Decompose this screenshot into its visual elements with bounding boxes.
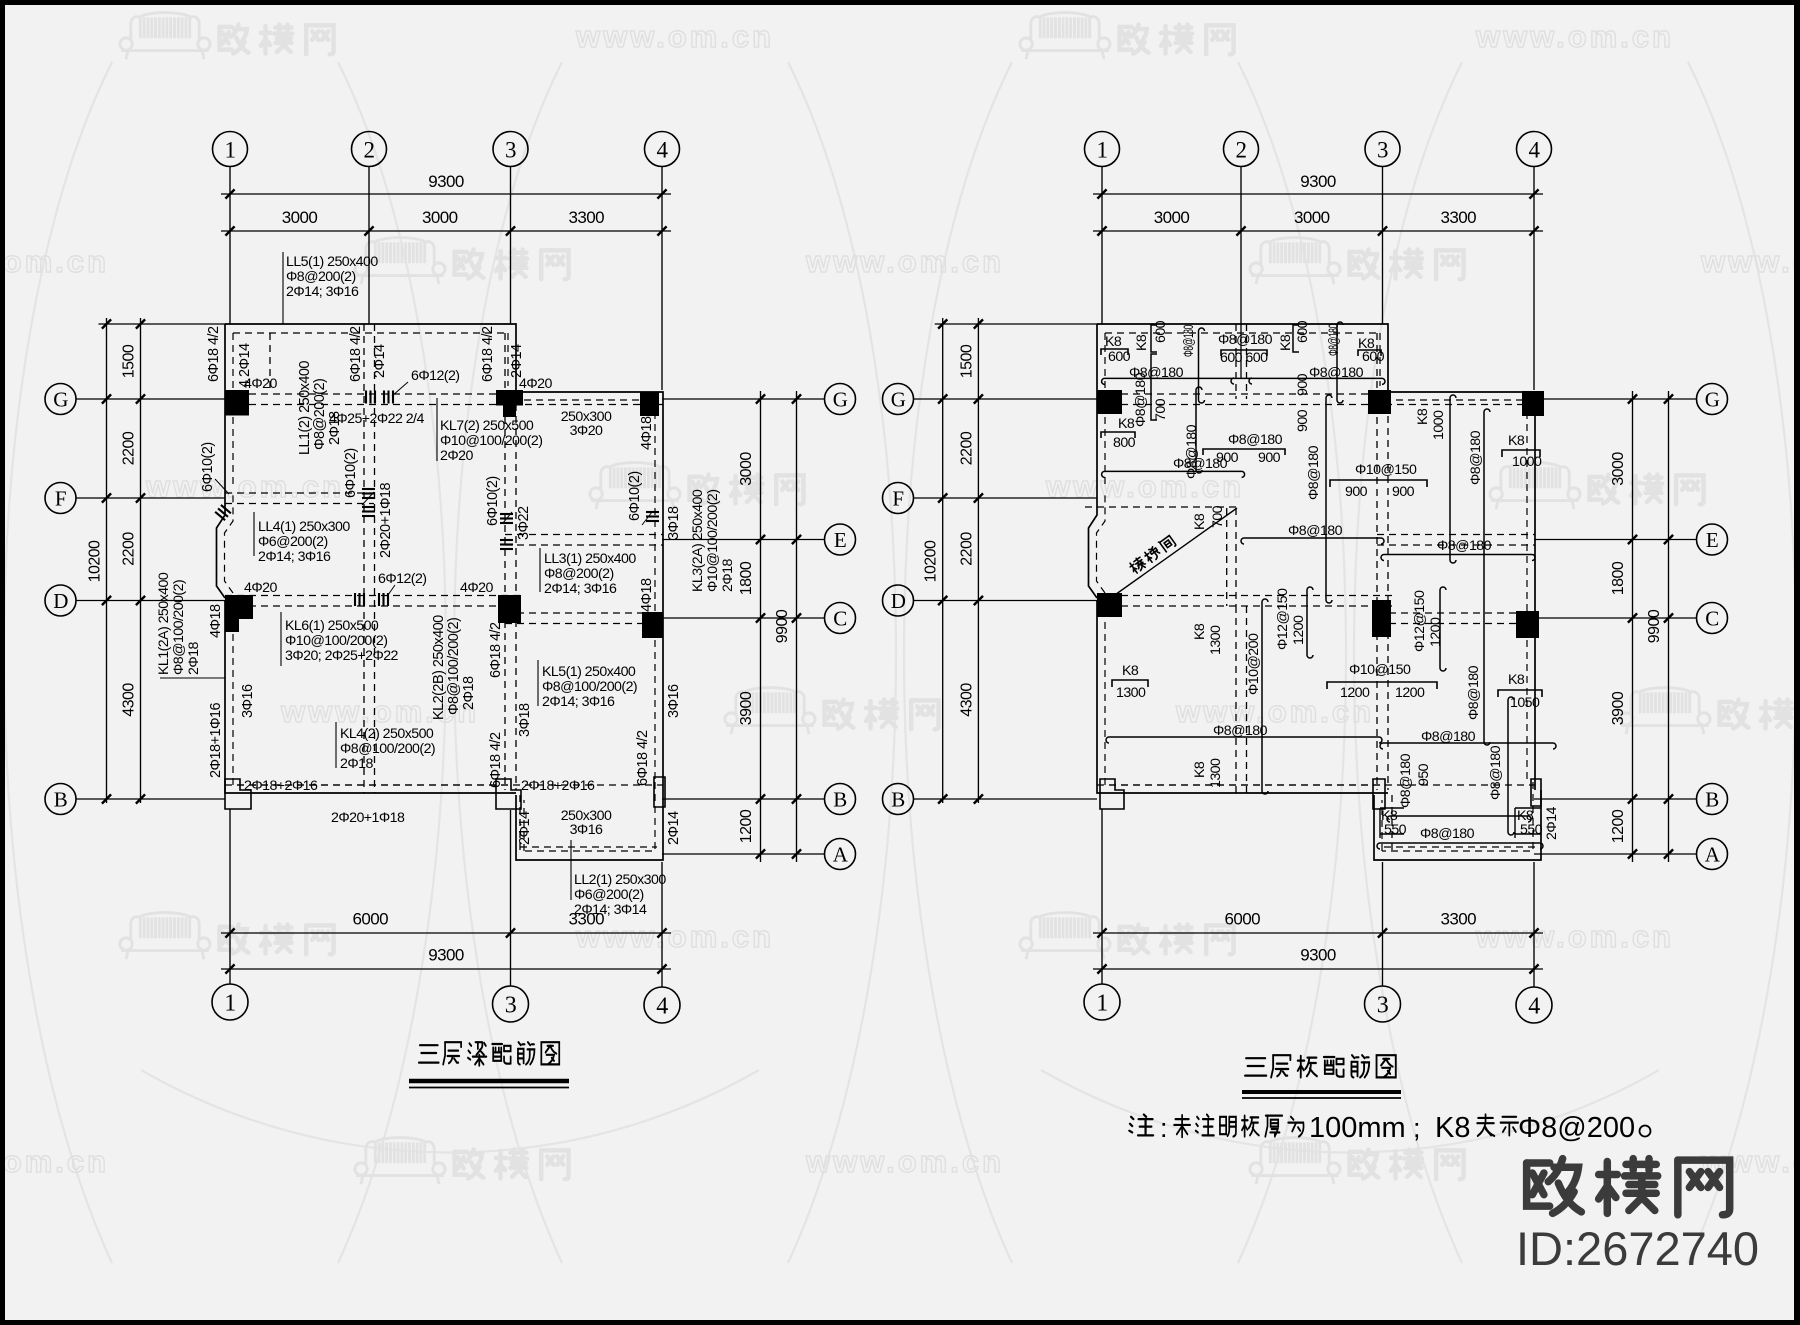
svg-text:3300: 3300 (1440, 208, 1476, 227)
svg-text:Φ8@180: Φ8@180 (1468, 430, 1484, 485)
svg-text:Φ8@100/200(2): Φ8@100/200(2) (171, 580, 187, 675)
svg-text:LL3(1) 250x400: LL3(1) 250x400 (544, 551, 636, 567)
svg-text:3: 3 (1377, 993, 1389, 1019)
svg-text:2Φ14; 3Φ14: 2Φ14; 3Φ14 (574, 902, 647, 918)
svg-text:Φ8@180: Φ8@180 (1437, 538, 1492, 554)
svg-text:2Φ14: 2Φ14 (509, 344, 525, 378)
svg-text:Φ10@200: Φ10@200 (1246, 633, 1262, 695)
svg-text:9300: 9300 (428, 946, 464, 965)
svg-text:Φ8@200(2): Φ8@200(2) (312, 379, 328, 450)
svg-text:2Φ18: 2Φ18 (461, 676, 477, 710)
right plan beam dashes G row (1097, 393, 1387, 395)
svg-text:6Φ18 4/2: 6Φ18 4/2 (488, 732, 504, 788)
svg-text:6Φ10(2): 6Φ10(2) (200, 442, 216, 492)
left plan beam dashes C row (grid3-4) (505, 612, 663, 614)
right plan vertical dashed extension (1391, 795, 1393, 851)
right horizontal rebar E-C (1381, 555, 1535, 561)
svg-text:2200: 2200 (958, 431, 975, 465)
column C4 right (1516, 611, 1539, 638)
svg-text:100mm: 100mm (1309, 1112, 1406, 1144)
svg-text:;: ; (1413, 1113, 1420, 1143)
svg-text:2Φ14; 3Φ16: 2Φ14; 3Φ16 (542, 694, 615, 710)
svg-text:2: 2 (1236, 137, 1247, 162)
svg-text:700: 700 (1210, 505, 1226, 528)
svg-text:KL2(2B) 250x400: KL2(2B) 250x400 (431, 615, 447, 720)
svg-text:Φ8@180: Φ8@180 (1228, 432, 1283, 448)
svg-text:4Φ20: 4Φ20 (460, 580, 493, 596)
svg-text:C: C (833, 607, 846, 631)
staircase diagonal (1112, 508, 1237, 597)
left dimension chain lines (106, 318, 108, 803)
bottom dimension lines 6000/3300 and 9300 (221, 932, 671, 934)
svg-text:4300: 4300 (121, 683, 138, 717)
KL1 annotation (rotated, outside left) (160, 677, 225, 679)
right plan F row dashed to stair (1085, 506, 1237, 508)
top strip long rebar (1102, 378, 1385, 384)
svg-text:www.om.cn: www.om.cn (0, 244, 109, 279)
svg-text:Φ8@200(2): Φ8@200(2) (286, 269, 356, 285)
left plan vertical dashed grid4 extension (519, 795, 521, 851)
svg-text:KL5(1) 250x400: KL5(1) 250x400 (542, 664, 636, 680)
svg-text:6Φ10(2): 6Φ10(2) (627, 471, 643, 521)
svg-text:2Φ14: 2Φ14 (517, 811, 533, 845)
leader 6phi10 chamfer (215, 479, 229, 494)
left plan inner dashed outline (225, 333, 656, 851)
svg-text:900: 900 (1295, 409, 1311, 432)
svg-text:3000: 3000 (738, 452, 755, 486)
svg-text:2Φ18+1Φ16: 2Φ18+1Φ16 (208, 702, 224, 778)
svg-text:700: 700 (1153, 398, 1169, 421)
bottom-right logo ou mo wang (1527, 1159, 1582, 1214)
svg-text:600: 600 (1362, 349, 1385, 365)
svg-text:3Φ18: 3Φ18 (666, 506, 682, 540)
mid vertical long rebar g2-3 (1326, 395, 1332, 603)
svg-text:600 600: 600 600 (1220, 350, 1268, 366)
right plan beam dashes C row (1377, 612, 1535, 614)
top strip second rebar (1102, 471, 1245, 477)
right plan beam dashes B row (1097, 784, 1535, 786)
bottom stub lines and circles 1 3 4 (229, 809, 231, 984)
left plan beam dashes B row (225, 784, 663, 786)
svg-text:www.om.cn: www.om.cn (1700, 244, 1800, 279)
svg-text:Φ8@180: Φ8@180 (1488, 745, 1504, 800)
svg-text:1: 1 (1097, 137, 1108, 162)
svg-text:Φ8@180: Φ8@180 (1466, 665, 1482, 720)
svg-text:Φ8@180: Φ8@180 (1213, 723, 1268, 739)
svg-text:KL6(1) 250x500: KL6(1) 250x500 (285, 618, 379, 634)
svg-text:2: 2 (364, 137, 375, 162)
svg-text:K8: K8 (1192, 623, 1208, 640)
left dimension chain lines (942, 318, 944, 803)
svg-text:E: E (834, 528, 846, 552)
svg-text:A: A (1705, 843, 1721, 867)
svg-text:2200: 2200 (121, 431, 138, 465)
svg-text:F: F (892, 487, 903, 511)
svg-text:LL2(1) 250x300: LL2(1) 250x300 (574, 872, 666, 888)
svg-text:600: 600 (1108, 349, 1131, 365)
svg-text:4Φ18: 4Φ18 (639, 416, 655, 450)
right grid circles G E C B A (plan dx=872) (1697, 384, 1728, 415)
column D3 right (tall) (1372, 600, 1391, 637)
svg-text:B: B (833, 788, 846, 812)
svg-text:K8: K8 (1134, 334, 1150, 351)
column D3 (498, 595, 521, 623)
svg-text:Φ8@180: Φ8@180 (1398, 753, 1414, 808)
leader 6phi10 E3 (503, 512, 512, 523)
svg-text:2Φ20+1Φ18: 2Φ20+1Φ18 (331, 810, 405, 826)
svg-text:1300: 1300 (1208, 758, 1224, 788)
svg-text:1800: 1800 (738, 561, 755, 595)
hollow column B1 right (1100, 779, 1124, 809)
LL2 annotation (570, 840, 572, 900)
svg-text:Φ10@150: Φ10@150 (1355, 462, 1417, 478)
svg-text:10200: 10200 (923, 540, 940, 582)
left plan vertical beam grid2 (363, 324, 365, 793)
svg-text:1200: 1200 (1291, 615, 1307, 645)
svg-text:www.om.cn: www.om.cn (1475, 19, 1674, 54)
column G3 (L-shaped) (496, 390, 523, 406)
watermark tiles (120, 13, 210, 60)
left plan vertical beam grid3 (504, 333, 506, 790)
column G4 (640, 392, 659, 416)
KL5 annotation (537, 660, 539, 706)
svg-text:550: 550 (1520, 822, 1543, 838)
svg-text:3Φ16: 3Φ16 (240, 684, 256, 718)
leader 6phi10 F2 (362, 492, 374, 505)
svg-text:G: G (891, 388, 906, 412)
svg-text:6Φ18 4/2: 6Φ18 4/2 (206, 326, 222, 382)
svg-text:9900: 9900 (1646, 609, 1663, 643)
svg-text:2Φ14; 3Φ16: 2Φ14; 3Φ16 (286, 284, 359, 300)
svg-text:3: 3 (505, 993, 517, 1019)
hollow column B3 (496, 779, 521, 809)
svg-text:2Φ14; 3Φ16: 2Φ14; 3Φ16 (258, 549, 331, 565)
svg-text:Φ8@180: Φ8@180 (1181, 325, 1197, 357)
svg-text:9900: 9900 (774, 609, 791, 643)
svg-text:1200: 1200 (1340, 685, 1370, 701)
svg-text:6000: 6000 (1224, 910, 1260, 929)
svg-text:www.om.cn: www.om.cn (575, 919, 774, 954)
svg-text:4: 4 (1529, 137, 1541, 162)
svg-text:F: F (55, 487, 66, 511)
svg-text:1300: 1300 (1116, 685, 1146, 701)
svg-text:3900: 3900 (1610, 691, 1627, 725)
svg-text:www.om.cn: www.om.cn (575, 19, 774, 54)
svg-text:1200: 1200 (738, 809, 755, 843)
svg-text:2200: 2200 (121, 532, 138, 566)
hollow column B1 (225, 779, 251, 809)
stirrup ticks chamfer (215, 505, 231, 520)
svg-text:3000: 3000 (422, 208, 458, 227)
stirrup ticks G/g2 (365, 391, 367, 404)
svg-text:K8: K8 (1508, 433, 1525, 449)
svg-text:950: 950 (1416, 763, 1432, 786)
svg-text:K8: K8 (1415, 408, 1431, 425)
right plan extension bottom dashed (1384, 846, 1535, 848)
svg-text:6Φ18 4/2: 6Φ18 4/2 (488, 622, 504, 678)
svg-text:C: C (1705, 607, 1718, 631)
svg-text:3Φ18: 3Φ18 (517, 703, 533, 737)
svg-text:Φ8@180: Φ8@180 (1326, 324, 1342, 356)
svg-text:2Φ18: 2Φ18 (186, 642, 202, 675)
stirrup ticks E/g3 (500, 513, 513, 515)
svg-text:2Φ18+2Φ16: 2Φ18+2Φ16 (244, 778, 318, 794)
extension rebars (1377, 843, 1543, 849)
left plan beam dashes D row (225, 595, 521, 597)
svg-text:6Φ10(2): 6Φ10(2) (343, 448, 359, 498)
svg-text:1800: 1800 (1610, 561, 1627, 595)
svg-text:G: G (1705, 388, 1720, 412)
svg-text:Φ8@200(2): Φ8@200(2) (544, 566, 614, 582)
svg-text:1: 1 (225, 137, 236, 162)
svg-text:1200: 1200 (1610, 809, 1627, 843)
svg-text:Φ6@200(2): Φ6@200(2) (258, 534, 328, 550)
svg-text:LL5(1) 250x400: LL5(1) 250x400 (286, 254, 378, 270)
top dimension line 9300 (221, 193, 671, 195)
svg-text:2Φ14; 3Φ16: 2Φ14; 3Φ16 (544, 581, 617, 597)
svg-text:Φ10@100/200(2): Φ10@100/200(2) (705, 490, 721, 592)
svg-text:3Φ20: 3Φ20 (570, 423, 603, 439)
svg-text:Φ8@180: Φ8@180 (1309, 365, 1364, 381)
svg-text:Φ8@200: Φ8@200 (1518, 1112, 1635, 1144)
svg-text:A: A (833, 843, 849, 867)
svg-text:1200: 1200 (1428, 617, 1444, 647)
svg-text:Φ6@200(2): Φ6@200(2) (574, 887, 644, 903)
svg-text:K8: K8 (1278, 334, 1294, 351)
left plan outline (solid) (217, 324, 664, 860)
svg-text:1000: 1000 (1512, 454, 1542, 470)
svg-text:G: G (53, 388, 68, 412)
left title: san ceng liang pei jin tu (419, 1045, 439, 1062)
svg-text:2Φ14: 2Φ14 (666, 811, 682, 845)
svg-text:6Φ12(2): 6Φ12(2) (411, 368, 459, 384)
svg-text:3: 3 (1377, 137, 1388, 162)
right plan beam dashes E row (1377, 534, 1535, 536)
LL4 annotation (253, 512, 255, 556)
long horizontal rebar above B (1106, 737, 1382, 743)
svg-text:2200: 2200 (958, 532, 975, 566)
LL3 annotation (539, 548, 541, 592)
svg-text:4Φ20: 4Φ20 (244, 580, 277, 596)
svg-text:K8: K8 (1122, 663, 1139, 679)
svg-text:2Φ20+1Φ18: 2Φ20+1Φ18 (378, 482, 394, 558)
svg-text:KL3(2A) 250x400: KL3(2A) 250x400 (690, 489, 706, 592)
svg-text:900: 900 (1258, 450, 1281, 466)
svg-text:6000: 6000 (352, 910, 388, 929)
svg-text:6Φ10(2): 6Φ10(2) (485, 476, 501, 526)
svg-text:Φ12@150: Φ12@150 (1412, 590, 1428, 652)
drawing frame border (0, 0, 5, 1325)
LL5 annotation + leader (282, 252, 284, 324)
svg-text:Φ12@150: Φ12@150 (1275, 588, 1291, 650)
top dimension line 9300 (1093, 193, 1543, 195)
right horizontal rebar above B (1380, 743, 1556, 749)
svg-text:6Φ18 4/2: 6Φ18 4/2 (348, 326, 364, 382)
svg-text:3000: 3000 (1610, 452, 1627, 486)
grid stub lines from top circles (1101, 167, 1103, 325)
svg-text:1300: 1300 (1208, 625, 1224, 655)
bottom dimension lines 6000/3300 and 9300 (1093, 932, 1543, 934)
svg-text:1: 1 (224, 991, 235, 1017)
svg-text:550: 550 (1384, 822, 1407, 838)
svg-text:Φ8@180: Φ8@180 (1133, 372, 1149, 427)
svg-text:Φ8@180: Φ8@180 (1420, 826, 1475, 842)
svg-text:2Φ18+2Φ16: 2Φ18+2Φ16 (521, 778, 595, 794)
svg-text:9300: 9300 (428, 172, 464, 191)
left plan beam dashes G row (225, 393, 515, 395)
svg-text:2Φ20: 2Φ20 (440, 448, 473, 464)
bottom stub lines and circles 1 3 4 (1101, 809, 1103, 984)
svg-text:KL1(2A) 250x400: KL1(2A) 250x400 (156, 572, 172, 675)
svg-text:900: 900 (1295, 373, 1311, 396)
svg-text:3Φ16: 3Φ16 (570, 822, 603, 838)
svg-text:6Φ18 4/2: 6Φ18 4/2 (635, 730, 651, 786)
svg-text:1050: 1050 (1510, 695, 1540, 711)
svg-text:4: 4 (656, 994, 668, 1020)
svg-text:1: 1 (1096, 991, 1107, 1017)
svg-text:B: B (891, 788, 904, 812)
svg-text:4: 4 (657, 137, 669, 162)
right dimension chain lines (1632, 391, 1634, 862)
svg-text:600: 600 (1295, 320, 1311, 343)
svg-text:3300: 3300 (568, 208, 604, 227)
svg-text:1500: 1500 (121, 344, 138, 378)
svg-text:3000: 3000 (1294, 208, 1330, 227)
svg-text:K8: K8 (1192, 761, 1208, 778)
short dashed beam x270 (269, 333, 271, 390)
svg-text:LL4(1) 250x300: LL4(1) 250x300 (258, 519, 350, 535)
svg-text:3Φ20; 2Φ25+2Φ22: 3Φ20; 2Φ25+2Φ22 (285, 648, 399, 664)
svg-text:Φ8@100/200(2): Φ8@100/200(2) (340, 741, 435, 757)
column D1 right (1097, 593, 1122, 617)
svg-text:Φ8@180: Φ8@180 (1218, 332, 1273, 348)
grid stub lines from top circles (229, 167, 231, 325)
top dimension line 3000/3000/3300 (1093, 230, 1543, 232)
svg-text:6Φ18 4/2: 6Φ18 4/2 (480, 326, 496, 382)
staircase label loutijian (1128, 535, 1176, 575)
right grid circles G E C B A (plan dx=0) (825, 384, 856, 415)
svg-text:4: 4 (1528, 994, 1540, 1020)
KL7 annotation (436, 398, 438, 461)
svg-text:ID:2672740: ID:2672740 (1516, 1222, 1759, 1275)
top strip vertical short rebars (1199, 328, 1205, 403)
KL4 annotation (335, 722, 337, 768)
svg-text:Φ8@180: Φ8@180 (1306, 445, 1322, 500)
svg-text:www.om.cn: www.om.cn (145, 469, 344, 504)
right plan beam dashes D row (1097, 595, 1393, 597)
svg-text:4300: 4300 (958, 683, 975, 717)
svg-text:Φ8@180: Φ8@180 (1421, 729, 1476, 745)
svg-text:Φ8@100/200(2): Φ8@100/200(2) (446, 618, 462, 715)
right plan inner dashed outline (1097, 333, 1534, 851)
hollow column B3 right (1373, 779, 1385, 809)
svg-text:3900: 3900 (738, 691, 755, 725)
mid horizontal rebar E (1241, 538, 1384, 544)
svg-text:K8: K8 (1435, 1112, 1470, 1144)
svg-text:www.om.cn: www.om.cn (1045, 469, 1244, 504)
svg-text:3300: 3300 (1440, 910, 1476, 929)
svg-text:1000: 1000 (1431, 410, 1447, 440)
svg-text:www.om.cn: www.om.cn (805, 244, 1004, 279)
svg-text:3000: 3000 (1154, 208, 1190, 227)
grid circles top 1-4 (plan dx=0) (213, 132, 248, 167)
KL6 annotation (280, 612, 282, 666)
stirrup ticks D/g2 (354, 593, 356, 606)
column G1 (225, 390, 249, 416)
hollow column B4 (654, 777, 665, 807)
svg-text:600: 600 (1153, 320, 1169, 343)
svg-text:3Φ22: 3Φ22 (516, 506, 532, 540)
svg-text:2Φ14: 2Φ14 (1544, 807, 1560, 840)
svg-text:B: B (1705, 788, 1718, 812)
svg-text:www.om.cn: www.om.cn (805, 1144, 1004, 1179)
left plan beam dashes extension bottom (520, 846, 657, 848)
svg-text:www.om.cn: www.om.cn (0, 1144, 109, 1179)
svg-text:K8: K8 (1105, 334, 1122, 350)
svg-text:4Φ18: 4Φ18 (639, 578, 655, 612)
lower vertical rebars (1262, 599, 1268, 794)
svg-text:2Φ18: 2Φ18 (327, 411, 343, 445)
svg-text:10200: 10200 (87, 540, 104, 582)
column G4 right (1522, 391, 1544, 416)
svg-text:2Φ18: 2Φ18 (720, 559, 736, 592)
svg-text:G: G (833, 388, 848, 412)
svg-text:9300: 9300 (1300, 946, 1336, 965)
svg-text:4 2Φ14: 4 2Φ14 (237, 343, 253, 388)
svg-text:1500: 1500 (958, 344, 975, 378)
svg-text:800: 800 (1113, 435, 1136, 451)
svg-text:6Φ12(2): 6Φ12(2) (378, 571, 426, 587)
svg-text:www.om.cn: www.om.cn (1475, 919, 1674, 954)
top dimension line 3000/3000/3300 (221, 230, 671, 232)
svg-text:KL4(2) 250x500: KL4(2) 250x500 (340, 726, 434, 742)
svg-text:900: 900 (1392, 484, 1415, 500)
right plan outline (solid) (1089, 324, 1542, 860)
svg-text:KL7(2) 250x500: KL7(2) 250x500 (440, 418, 534, 434)
svg-text:3Φ16: 3Φ16 (666, 684, 682, 718)
svg-text:K8: K8 (1118, 416, 1135, 432)
stirrup ticks F/g2 (362, 488, 375, 490)
leader 6phi10 E4 (642, 512, 652, 525)
grid circles top 1-4 (plan dx=872) (1085, 132, 1120, 167)
svg-text:Φ8@180: Φ8@180 (1173, 456, 1228, 472)
svg-text:D: D (891, 589, 906, 613)
column D1 (225, 595, 253, 619)
svg-text:Φ10@150: Φ10@150 (1349, 662, 1411, 678)
hollow column B4 right (1531, 779, 1541, 806)
svg-text:9300: 9300 (1300, 172, 1336, 191)
grid2 stub extension into plan (1240, 324, 1242, 378)
svg-text:K8: K8 (1508, 672, 1525, 688)
svg-text:Φ10@100/200(2): Φ10@100/200(2) (285, 633, 387, 649)
note line (1129, 1114, 1153, 1135)
svg-text:K8: K8 (1192, 513, 1208, 530)
stirrup ticks E/g4 (646, 511, 659, 513)
svg-text::: : (1160, 1113, 1167, 1143)
column G1 right (1097, 390, 1122, 414)
svg-text:4Φ18: 4Φ18 (208, 604, 224, 638)
right dimension chain lines (760, 391, 762, 862)
svg-text:3: 3 (505, 137, 516, 162)
right plan vertical beam grid3 (1376, 333, 1378, 790)
svg-text:Φ8@100/200(2): Φ8@100/200(2) (542, 679, 637, 695)
svg-text:B: B (54, 788, 67, 812)
svg-text:E: E (1706, 528, 1718, 552)
right plan vertical beam grid2 (stair wall) (1235, 324, 1237, 399)
svg-text:1200: 1200 (1395, 685, 1425, 701)
svg-text:3000: 3000 (282, 208, 318, 227)
svg-text:Φ8@180: Φ8@180 (1288, 523, 1343, 539)
